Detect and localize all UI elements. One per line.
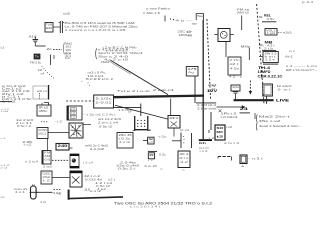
svg-text:VOL1: VOL1 (266, 29, 276, 32)
svg-text:At-1: At-1 (285, 55, 294, 59)
svg-text:Ma2 2tv-t: Ma2 2tv-t (259, 115, 290, 119)
svg-text:0.t c: 0.t c (180, 156, 190, 160)
svg-text:-- t 2c: -- t 2c (83, 113, 95, 117)
svg-text:CER.0.22.1C: CER.0.22.1C (258, 74, 284, 78)
svg-text:4 e t2: 4 e t2 (119, 141, 131, 144)
svg-text:2 tc0: 2 tc0 (43, 165, 53, 168)
svg-text:FM 0.5c: FM 0.5c (30, 61, 42, 65)
svg-text:w/t0.2c-1 4et2: w/t0.2c-1 4et2 (85, 144, 109, 148)
svg-text:24: 24 (240, 107, 248, 111)
svg-text:1r0 2 tc4: 1r0 2 tc4 (88, 74, 105, 78)
svg-text:t 2 c4: t 2 c4 (83, 162, 94, 165)
svg-text:t.pt: t.pt (267, 32, 276, 35)
svg-text:1Pt.t 2: 1Pt.t 2 (221, 112, 238, 116)
svg-text:3.Bar-teot: 3.Bar-teot (197, 107, 217, 111)
svg-text:n Mw 1.6: n Mw 1.6 (143, 11, 161, 15)
svg-text:c2 t: c2 t (108, 178, 116, 181)
svg-text:2t: 2t (149, 154, 154, 157)
svg-text:OS: OS (44, 159, 51, 162)
svg-text:t c 2: t c 2 (200, 150, 209, 153)
svg-text:1 t 2: 1 t 2 (2, 100, 18, 103)
svg-text:4 e-t2: 4 e-t2 (144, 164, 158, 168)
svg-text:o 2 tc4: o 2 tc4 (25, 160, 39, 163)
svg-text:0.5c 2 t: 0.5c 2 t (118, 167, 136, 171)
svg-text:2 eat-c1: 2 eat-c1 (153, 88, 175, 92)
svg-text:e2t/1: e2t/1 (283, 31, 293, 35)
svg-text:1 2 e: 1 2 e (265, 59, 276, 62)
svg-text:2SC c2: 2SC c2 (178, 29, 192, 33)
svg-text:2SC1: 2SC1 (38, 131, 47, 135)
svg-text:4 o ---: 4 o --- (176, 19, 193, 23)
svg-text:o-1 t2: o-1 t2 (1, 164, 11, 167)
svg-text:no5: no5 (63, 12, 71, 16)
svg-text:e0 m: e0 m (37, 89, 47, 93)
svg-text:p. 0-4: p. 0-4 (302, 1, 314, 4)
svg-text:n t: n t (289, 50, 296, 53)
svg-text:RF.2: RF.2 (170, 116, 180, 120)
svg-text:240: 240 (58, 144, 68, 148)
svg-text:4 c-1: 4 c-1 (15, 191, 26, 194)
svg-text:c t c 2 0 t 1 4 t: c t c 2 0 t 1 4 t (130, 206, 161, 209)
svg-text:AM: AM (44, 155, 50, 158)
svg-text:m1.C 2 4c t: m1.C 2 4c t (96, 112, 116, 116)
svg-text:4.2 - c: 4.2 - c (229, 74, 243, 78)
svg-text:Tvt.e 2 t.o-tc: Tvt.e 2 t.o-tc (117, 89, 151, 93)
svg-text:4.5v: 4.5v (230, 67, 240, 71)
svg-text:t-2c: t-2c (159, 135, 168, 139)
svg-text:Gh: Gh (199, 141, 206, 145)
svg-text:45c t-v2: 45c t-v2 (259, 119, 282, 123)
svg-text:2SC 45: 2SC 45 (119, 133, 133, 137)
svg-text:175: 175 (188, 67, 198, 71)
svg-text:AF 2: AF 2 (180, 152, 190, 156)
svg-text:4ea2 2 Sawtell & Gtm...: 4ea2 2 Sawtell & Gtm... (259, 124, 302, 128)
svg-text:o ima Fattim: o ima Fattim (146, 7, 171, 11)
svg-text:0.5c t2: 0.5c t2 (99, 124, 113, 128)
svg-text:2n: 2n (47, 47, 52, 51)
svg-text:0.5c t 2: 0.5c t 2 (17, 124, 32, 128)
svg-text:0- tv t: 0- tv t (278, 88, 292, 92)
svg-text:455c: 455c (39, 109, 49, 113)
svg-text:4 5v: 4 5v (267, 17, 276, 21)
svg-text:t2 c4: t2 c4 (180, 129, 190, 132)
svg-text:Eff-t.%-Guv't'*--: Eff-t.%-Guv't'*-- (286, 68, 317, 72)
svg-text:LIVE: LIVE (276, 99, 290, 103)
svg-text:10MFD: 10MFD (258, 70, 272, 74)
svg-text:V 17n: V 17n (230, 58, 241, 62)
svg-text:10u: 10u (232, 86, 240, 89)
svg-text:4 e2: 4 e2 (97, 188, 107, 191)
svg-text:1 count o t.s.t.0.0.0 a t.05: 1 count o t.s.t.0.0.0 a t.05 (65, 28, 127, 32)
svg-text:- t 2: - t 2 (54, 121, 63, 124)
svg-text:0.5c: 0.5c (159, 154, 167, 157)
svg-text:O: O (212, 89, 216, 91)
svg-text:2 tv t 4: 2 tv t 4 (224, 141, 240, 145)
svg-text:1815 o: 1815 o (179, 33, 192, 37)
svg-text:IF.t2: IF.t2 (39, 106, 50, 110)
svg-text:t2: t2 (216, 134, 224, 138)
svg-text:Two OSC So ARO 2504 21/32 TRO: Two OSC So ARO 2504 21/32 TRO o S.t.2 (114, 202, 212, 206)
svg-text:OSC: OSC (43, 172, 51, 176)
svg-text:FM2a: FM2a (101, 60, 110, 64)
svg-text:AM t2: AM t2 (237, 11, 250, 15)
svg-text:t.0.02c4: t.0.02c4 (221, 115, 239, 119)
svg-text:t c2: t c2 (24, 144, 33, 147)
svg-text:KEL: KEL (264, 13, 271, 17)
svg-text:TP: TP (192, 22, 197, 26)
svg-text:4 t2: 4 t2 (40, 201, 47, 204)
svg-text:- n.3 t: - n.3 t (249, 157, 263, 161)
svg-text:c2 t: c2 t (230, 62, 240, 66)
svg-text:m2.t 0 Pc.: m2.t 0 Pc. (88, 70, 107, 74)
svg-text:B.C.R.R.H.C. 2: B.C.R.R.H.C. 2 (86, 77, 114, 81)
svg-text:2-0.01: 2-0.01 (96, 100, 113, 104)
svg-text:ER: ER (46, 27, 52, 30)
